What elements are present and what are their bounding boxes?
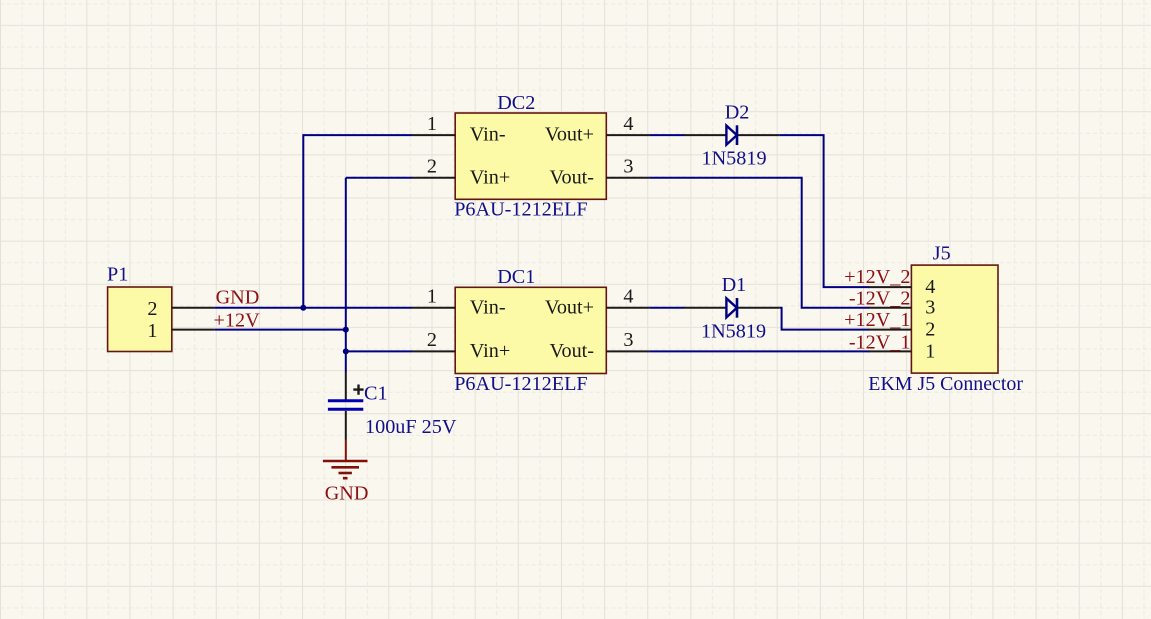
svg-text:J5: J5 [933, 243, 951, 265]
svg-text:Vout+: Vout+ [545, 296, 594, 318]
converter DC2 [412, 113, 649, 199]
svg-text:-12V_1: -12V_1 [849, 331, 911, 353]
svg-text:Vout+: Vout+ [545, 124, 594, 146]
svg-text:GND: GND [325, 482, 369, 504]
svg-text:Vin-: Vin- [470, 296, 506, 318]
capacitor C1 [328, 372, 363, 440]
svg-text:2: 2 [925, 319, 935, 341]
power port GND ground symbol [323, 440, 368, 479]
svg-text:100uF 25V: 100uF 25V [365, 416, 457, 438]
svg-text:C1: C1 [364, 383, 388, 405]
wire DC2 pin2 feed [346, 177, 412, 179]
svg-text:Vin+: Vin+ [470, 340, 510, 362]
svg-text:1: 1 [427, 286, 437, 308]
svg-text:1: 1 [427, 113, 437, 135]
wire DC2 pin4 output to D2 [649, 134, 684, 136]
junction GND riser [300, 305, 306, 311]
svg-text:+12V: +12V [214, 309, 261, 331]
wire DC2 pin3 output to J5 pin3 [649, 178, 869, 308]
svg-text:D1: D1 [722, 274, 747, 296]
svg-text:DC2: DC2 [497, 92, 535, 114]
svg-text:EKM J5 Connector: EKM J5 Connector [868, 373, 1023, 395]
svg-text:Vin-: Vin- [470, 124, 506, 146]
svg-text:Vin+: Vin+ [470, 166, 510, 188]
svg-text:GND: GND [216, 286, 260, 308]
wire GND net from P1 pin2 to DC1 pin1 [215, 307, 412, 309]
converter DC1 [412, 287, 649, 373]
C1 polarity plus [353, 385, 363, 395]
svg-text:1: 1 [147, 320, 157, 342]
connector P1 [108, 287, 215, 352]
wire DC1 pin2 feed [346, 350, 412, 352]
svg-text:P1: P1 [107, 264, 128, 286]
svg-text:Vout-: Vout- [550, 340, 595, 362]
wire DC1 pin4 output to D1 [649, 307, 684, 309]
wire DC1 pin3 output to J5 pin1 [649, 350, 869, 352]
svg-text:3: 3 [925, 297, 935, 319]
diode D1 [684, 298, 780, 318]
svg-text:2: 2 [427, 329, 437, 351]
wire riser GND up to DC2 pin1 row [303, 135, 412, 309]
svg-text:DC1: DC1 [497, 266, 535, 288]
diode D2 [684, 125, 780, 145]
wire D2 to J5 pin4 [780, 135, 870, 287]
svg-text:1: 1 [925, 340, 935, 362]
svg-text:2: 2 [427, 156, 437, 178]
svg-text:P6AU-1212ELF: P6AU-1212ELF [454, 373, 587, 395]
svg-text:1N5819: 1N5819 [702, 148, 767, 170]
svg-text:1N5819: 1N5819 [701, 320, 766, 342]
svg-text:P6AU-1212ELF: P6AU-1212ELF [454, 199, 587, 221]
svg-text:4: 4 [925, 276, 935, 298]
svg-text:Vout-: Vout- [550, 166, 595, 188]
wire +12V net from P1 pin1 to riser [215, 329, 346, 331]
junction +12V riser [343, 327, 349, 333]
svg-text:4: 4 [623, 286, 633, 308]
svg-text:4: 4 [623, 113, 633, 135]
junction DC1 pin2 feed [343, 348, 349, 354]
wire riser +12V from DC2 pin2 row down to capacitor [345, 178, 347, 372]
svg-text:D2: D2 [725, 101, 750, 123]
svg-text:+12V_2: +12V_2 [844, 266, 910, 288]
svg-text:3: 3 [623, 329, 633, 351]
svg-text:+12V_1: +12V_1 [844, 309, 910, 331]
svg-text:3: 3 [623, 156, 633, 178]
svg-text:-12V_2: -12V_2 [849, 287, 911, 309]
svg-text:2: 2 [147, 298, 157, 320]
connector J5 [868, 265, 998, 373]
wire D1 to J5 pin2 [780, 308, 870, 330]
